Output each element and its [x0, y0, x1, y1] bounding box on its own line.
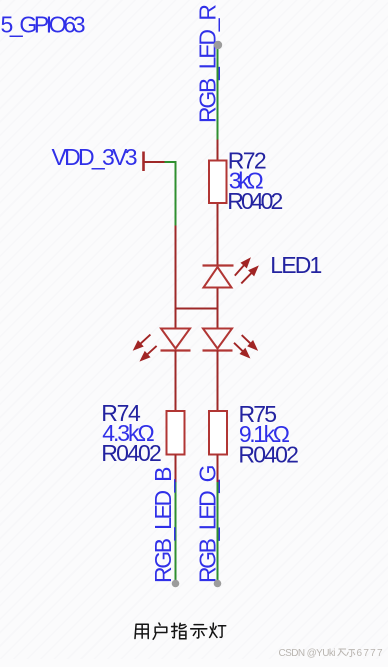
svg-text:RGB_LED_G: RGB_LED_G — [194, 465, 220, 584]
svg-text:6777: 6777 — [357, 648, 383, 659]
svg-text:CSDN @YUki: CSDN @YUki — [279, 648, 336, 659]
svg-text:VDD_3V3: VDD_3V3 — [52, 144, 138, 170]
svg-text:RGB_LED_R: RGB_LED_R — [195, 4, 221, 123]
svg-text:5_GPIO63: 5_GPIO63 — [1, 12, 86, 38]
svg-text:LED1: LED1 — [270, 252, 322, 278]
svg-text:R0402: R0402 — [227, 188, 283, 214]
svg-text:R0402: R0402 — [101, 440, 162, 466]
svg-text:R0402: R0402 — [238, 442, 299, 468]
svg-text:RGB_LED_B: RGB_LED_B — [150, 467, 176, 584]
